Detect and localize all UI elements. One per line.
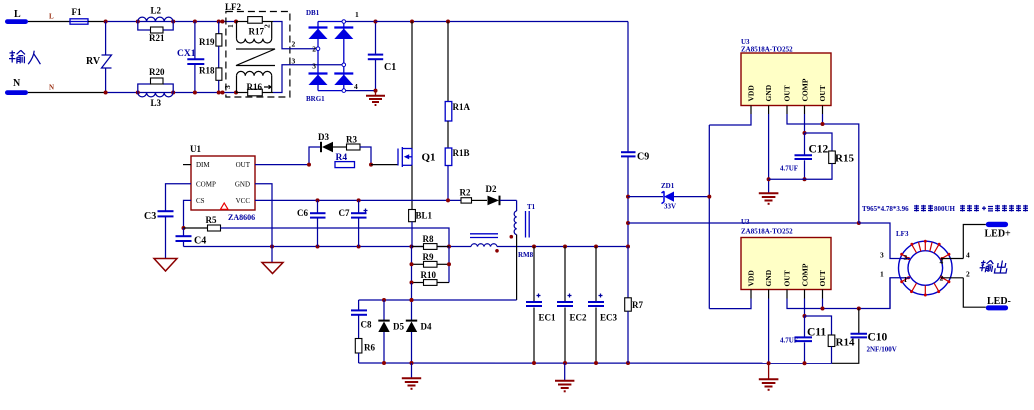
- svg-text:R5: R5: [206, 215, 217, 225]
- svg-text:N: N: [13, 78, 21, 89]
- resistor R21: [138, 22, 173, 44]
- svg-text:C8: C8: [361, 320, 372, 330]
- svg-text:LED-: LED-: [987, 296, 1011, 307]
- svg-text:COMP: COMP: [196, 181, 216, 189]
- wire drain riser: [411, 22, 413, 149]
- wire N lead: [28, 84, 106, 93]
- terminal LED-: [986, 296, 1011, 310]
- svg-text:Q1: Q1: [422, 152, 436, 164]
- ground secondary left: [402, 363, 421, 389]
- svg-text:R9: R9: [423, 252, 434, 262]
- svg-text:D4: D4: [421, 322, 432, 332]
- node C1 top: [374, 20, 378, 24]
- svg-text:3: 3: [880, 251, 884, 260]
- text 输出 output: [979, 260, 1009, 273]
- svg-text:EC2: EC2: [570, 313, 588, 323]
- svg-text:C1: C1: [384, 62, 396, 73]
- wire L lead: [28, 13, 70, 22]
- wire COMP to C3: [166, 184, 192, 211]
- svg-text:R19: R19: [199, 37, 215, 47]
- svg-text:ZA8606: ZA8606: [228, 213, 255, 222]
- svg-text:GND: GND: [764, 84, 773, 101]
- diode bridge top-left: [309, 28, 328, 40]
- capacitor EC2: [557, 247, 587, 364]
- svg-text:R6: R6: [364, 343, 375, 353]
- inductor BL1: [409, 210, 433, 247]
- svg-text:ZD1: ZD1: [661, 182, 675, 190]
- svg-text:R18: R18: [199, 66, 215, 76]
- svg-text:COMP: COMP: [801, 263, 810, 286]
- svg-text:D2: D2: [486, 184, 497, 194]
- svg-text:L: L: [49, 13, 54, 21]
- LF3 pin numbers: [880, 251, 970, 285]
- wire LF3 pin3 lead: [859, 223, 901, 259]
- wire U3b VDD: [709, 290, 751, 309]
- wire Q1 source: [411, 165, 413, 209]
- resistor R4: [335, 153, 355, 168]
- svg-text:4: 4: [966, 251, 970, 260]
- capacitor C12: [769, 133, 829, 181]
- svg-text:R16: R16: [247, 82, 263, 92]
- svg-text:BL1: BL1: [416, 211, 433, 221]
- svg-text:CS: CS: [196, 197, 205, 205]
- svg-text:R7: R7: [632, 300, 643, 310]
- svg-text:R15: R15: [835, 153, 854, 165]
- text LF3 spec note: [862, 205, 1028, 213]
- capacitor C4: [176, 228, 207, 247]
- svg-text:RM8: RM8: [518, 251, 534, 259]
- wire VCC rail: [255, 198, 461, 202]
- capacitor C8: [351, 300, 372, 339]
- svg-text:R10: R10: [421, 270, 437, 280]
- transformer T1 core: [526, 211, 530, 238]
- svg-text:4.7UF: 4.7UF: [780, 337, 798, 345]
- svg-text:4.7UF: 4.7UF: [780, 165, 798, 173]
- svg-text:CX1: CX1: [177, 49, 196, 59]
- transformer aux core: [470, 234, 498, 238]
- transformer T1 aux winding: [471, 244, 534, 259]
- svg-text:D3: D3: [318, 132, 329, 142]
- svg-text:RV: RV: [86, 56, 101, 67]
- svg-text:3: 3: [312, 62, 316, 71]
- wire U3b GND: [767, 290, 771, 366]
- svg-text:R1A: R1A: [453, 102, 471, 112]
- svg-text:C6: C6: [297, 208, 308, 218]
- capacitor EC1: [526, 247, 556, 364]
- capacitor C7: [339, 200, 368, 246]
- svg-text:L3: L3: [151, 98, 162, 108]
- diode D2: [486, 184, 517, 205]
- svg-text:L2: L2: [151, 6, 162, 16]
- wire R5 to sense ladder: [221, 228, 450, 247]
- zener diode ZD1: [628, 182, 709, 211]
- ic U1 ZA8606: [190, 144, 255, 222]
- winding LF2 top: [237, 22, 272, 44]
- resistor R16: [236, 82, 273, 96]
- svg-text:C11: C11: [807, 327, 826, 339]
- resistor R2: [460, 188, 488, 204]
- ground U3a: [759, 193, 779, 204]
- svg-text:4: 4: [354, 82, 358, 91]
- wire gate lead: [371, 164, 398, 166]
- ground bridge: [366, 91, 385, 105]
- wire VDD feed riser: [707, 125, 711, 309]
- svg-text:R20: R20: [149, 67, 165, 77]
- svg-text:3: 3: [292, 57, 296, 66]
- svg-text:33V: 33V: [664, 203, 676, 211]
- capacitor C9: [621, 22, 649, 247]
- svg-text:DB1: DB1: [306, 9, 320, 17]
- resistor R19: [199, 22, 222, 48]
- svg-text:R8: R8: [423, 234, 434, 244]
- node C1 bottom: [374, 89, 378, 93]
- svg-text:C3: C3: [144, 211, 156, 222]
- ground U1: [262, 263, 283, 274]
- LF3 pin stubs: [901, 259, 963, 278]
- svg-text:1: 1: [355, 10, 359, 19]
- svg-text:VCC: VCC: [236, 197, 251, 205]
- svg-text:R21: R21: [149, 33, 165, 43]
- bridge rectifier DB1: [306, 9, 376, 103]
- wire GND rail: [184, 245, 629, 249]
- svg-text:U3: U3: [741, 218, 750, 226]
- fuse F1: [70, 7, 88, 24]
- wire DIM stub: [183, 164, 191, 166]
- terminal N: [5, 78, 28, 95]
- svg-text:LF3: LF3: [896, 230, 909, 238]
- resistor R1A: [445, 22, 470, 122]
- resistor R1B: [445, 121, 469, 200]
- capacitor C11: [780, 316, 826, 365]
- svg-text:EC3: EC3: [600, 313, 618, 323]
- resistor R7: [625, 247, 644, 364]
- svg-text:C12: C12: [809, 144, 829, 156]
- transistor Q1: [398, 147, 412, 167]
- wire U3a OUT bus: [787, 106, 859, 224]
- diode D4: [406, 320, 432, 363]
- svg-text:3: 3: [223, 85, 232, 89]
- resistor R18: [199, 46, 222, 92]
- wire U3b COMP: [803, 290, 807, 319]
- wire L rail: [106, 21, 236, 23]
- wire U1 GND to ground: [255, 184, 272, 262]
- svg-text:COMP: COMP: [801, 78, 810, 101]
- svg-text:1: 1: [880, 270, 884, 279]
- wire U3a GND: [767, 106, 771, 193]
- resistor R17: [236, 17, 273, 37]
- resistor R5: [184, 215, 221, 231]
- resistor R14: [805, 316, 855, 363]
- wire LED+ lead: [963, 225, 986, 259]
- svg-text:N: N: [49, 84, 54, 92]
- ground U3b: [759, 363, 779, 390]
- diode D3: [255, 132, 347, 167]
- pin numbers LF2: [223, 24, 296, 89]
- common mode choke LF2: [225, 2, 290, 97]
- resistor R15: [805, 133, 855, 179]
- svg-text:EC1: EC1: [539, 313, 557, 323]
- svg-text:VDD: VDD: [747, 270, 756, 287]
- svg-text:GND: GND: [764, 269, 773, 286]
- inductor L2: [138, 6, 173, 22]
- wire LF2 pin4 to bridge: [273, 65, 344, 93]
- node C9 line: [626, 195, 630, 249]
- capacitor C6: [297, 200, 326, 246]
- capacitor CX1: [177, 22, 204, 93]
- svg-text:1: 1: [226, 24, 235, 28]
- diode bridge top-right: [334, 28, 353, 40]
- wire N rail: [106, 92, 236, 94]
- ground C3: [154, 259, 177, 272]
- capacitor C3: [144, 211, 174, 258]
- svg-text:3: 3: [904, 253, 908, 262]
- core LF2: [236, 49, 275, 66]
- wire U3a COMP: [803, 106, 807, 136]
- svg-text:T1: T1: [527, 203, 536, 211]
- bridge pin circles and numbers: [312, 10, 359, 92]
- diode bridge bottom-right: [334, 74, 353, 86]
- snubber rail: [359, 298, 517, 302]
- svg-text:OUT: OUT: [783, 85, 792, 101]
- ic U3 upper ZA8518A: [741, 38, 831, 106]
- svg-text:L: L: [14, 9, 21, 20]
- node L rail junctions: [104, 20, 238, 24]
- svg-text:GND: GND: [235, 181, 250, 189]
- text 输入 input: [9, 50, 40, 64]
- svg-text:ZA8518A-TO252: ZA8518A-TO252: [741, 228, 793, 236]
- svg-text:LED+: LED+: [985, 229, 1012, 240]
- resistor R3: [346, 135, 373, 167]
- svg-text:4: 4: [940, 257, 944, 266]
- wire HV rail top: [376, 20, 629, 24]
- wire U3a VDD: [709, 106, 751, 126]
- varistor RV: [86, 22, 112, 93]
- svg-text:2NF/100V: 2NF/100V: [867, 346, 897, 354]
- svg-text:C4: C4: [194, 236, 206, 247]
- resistor R10: [410, 270, 450, 285]
- svg-text:R3: R3: [346, 135, 357, 145]
- inductor LF3 toroid: [896, 230, 952, 297]
- svg-text:800UH: 800UH: [934, 205, 956, 213]
- resistor R9: [410, 247, 452, 284]
- svg-text:R4: R4: [336, 153, 348, 163]
- svg-text:R2: R2: [460, 188, 471, 198]
- node N rail junctions: [104, 91, 238, 95]
- svg-text:1: 1: [904, 275, 908, 284]
- svg-text:C10: C10: [868, 332, 888, 344]
- svg-text:BRG1: BRG1: [306, 95, 325, 103]
- svg-text:2: 2: [312, 45, 316, 54]
- terminal L: [5, 9, 28, 24]
- svg-text:D5: D5: [393, 322, 404, 332]
- wire F1 to node: [88, 21, 106, 23]
- wire ladder to clamp rail: [410, 283, 414, 320]
- svg-text:C7: C7: [339, 208, 350, 218]
- wire CS line: [182, 200, 192, 230]
- wire U3b OUT bus: [787, 278, 890, 311]
- svg-text:U1: U1: [190, 144, 201, 154]
- svg-text:2: 2: [966, 270, 970, 279]
- svg-text:OUT: OUT: [236, 161, 251, 169]
- svg-text:R1B: R1B: [453, 148, 470, 158]
- svg-text:LF2: LF2: [225, 2, 242, 12]
- diode D5: [378, 300, 404, 363]
- svg-text:DIM: DIM: [196, 161, 210, 169]
- transformer T1 primary: [510, 200, 536, 300]
- svg-text:2: 2: [292, 40, 296, 49]
- wire OUT bus upper: [628, 221, 861, 225]
- svg-text:T965*4.78*3.96: T965*4.78*3.96: [862, 205, 909, 213]
- diode bridge bottom-left: [309, 74, 328, 86]
- terminal LED+: [985, 222, 1012, 240]
- resistor R8: [412, 234, 450, 249]
- wire secondary ground rail: [359, 361, 832, 365]
- capacitor C10: [832, 309, 897, 364]
- svg-text:OUT: OUT: [783, 270, 792, 286]
- svg-text:2: 2: [263, 24, 272, 28]
- wire LED- lead: [963, 278, 986, 307]
- svg-text:C9: C9: [637, 152, 649, 163]
- wire LF2 pin2 to bridge: [273, 22, 319, 49]
- ic U3 lower ZA8518A: [741, 218, 831, 290]
- winding LF2 bottom: [237, 71, 272, 92]
- svg-text:2: 2: [940, 274, 944, 283]
- ground secondary mid: [555, 363, 574, 391]
- inductor L3: [138, 93, 173, 109]
- svg-text:F1: F1: [72, 7, 82, 17]
- svg-text:OUT: OUT: [818, 270, 827, 286]
- capacitor C1: [368, 22, 396, 91]
- svg-text:VDD: VDD: [747, 85, 756, 102]
- resistor R6: [355, 339, 375, 364]
- resistor R20: [138, 67, 173, 93]
- capacitor EC3: [588, 247, 618, 364]
- wire LF3 pin1 lead: [890, 278, 901, 309]
- svg-text:OUT: OUT: [818, 85, 827, 101]
